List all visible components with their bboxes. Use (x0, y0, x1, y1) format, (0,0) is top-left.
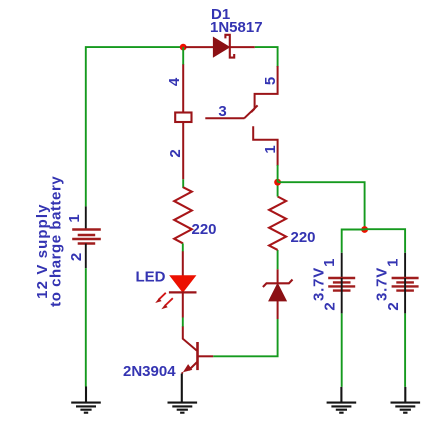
zener cathode pin (277, 269, 279, 283)
transistor Q1 2N3904 collector lead (183, 327, 197, 351)
resistor R2 220 (269, 197, 286, 250)
zener cathode bar (263, 280, 293, 288)
svg-text:1: 1 (384, 259, 401, 267)
relay contact tick (251, 109, 254, 112)
wire Q1 base to zener anode (213, 319, 277, 356)
wire relay pin 1 to node B (277, 165, 279, 182)
battery V1 plates (72, 230, 101, 244)
wire node A to relay coil pin 4 (182, 47, 184, 65)
wire coil pin 2 to resistor R1 (182, 179, 184, 188)
wire node B to node C (278, 182, 365, 229)
node C (battery bank junction) (361, 226, 368, 233)
svg-text:LED: LED (136, 269, 166, 286)
LED cathode pin (182, 292, 184, 317)
zener diode body (269, 284, 286, 301)
wire LED cathode to Q1 collector (182, 318, 184, 328)
svg-text:2: 2 (167, 149, 184, 157)
diode D1 body (schottky) (213, 37, 229, 56)
ground (battery V2) (327, 387, 357, 413)
battery V1 pin 1 lead (85, 206, 87, 229)
LED body (170, 276, 195, 292)
relay contact pin 1 lead (253, 126, 277, 166)
svg-text:to charge battery: to charge battery (48, 176, 65, 307)
svg-text:1: 1 (321, 259, 338, 267)
svg-text:2N3904: 2N3904 (123, 363, 176, 380)
wire battery V3 to ground (404, 313, 406, 387)
svg-text:3.7V: 3.7V (374, 267, 391, 301)
svg-text:1: 1 (66, 214, 83, 222)
relay coil K1 (175, 113, 191, 123)
wire battery V1 to ground (85, 268, 87, 386)
battery V3 pin 1 lead (404, 253, 406, 278)
LED emission arrow 1 (155, 293, 166, 303)
LED anode pin (182, 251, 184, 276)
transistor Q1 emitter with arrow (182, 362, 198, 374)
relay coil pin 2 lead (182, 122, 184, 179)
relay contact pin 5 lead (255, 66, 278, 109)
wire R1 to LED anode (182, 243, 184, 251)
svg-text:2: 2 (385, 302, 402, 310)
battery V2 pin 1 lead (341, 253, 343, 278)
zener diode anode pin (277, 301, 279, 319)
svg-text:3: 3 (218, 103, 226, 120)
wire R2 top to node B (277, 182, 279, 196)
wire node C to battery V2 (342, 230, 365, 253)
svg-text:4: 4 (166, 77, 183, 86)
LED cathode bar (169, 291, 197, 293)
node A (D1 anode junction) (180, 44, 187, 51)
transistor Q1 base bar (196, 342, 199, 370)
svg-text:220: 220 (291, 229, 316, 246)
relay coil pin 4 lead (182, 64, 184, 112)
diode D1 cathode pin (230, 46, 255, 48)
battery V3 plates (392, 278, 419, 291)
svg-text:220: 220 (192, 221, 217, 238)
LED emission arrow 2 (161, 298, 173, 309)
wire battery V2 to ground (341, 313, 343, 387)
relay switch arm (244, 105, 257, 118)
node B (relay contact / battery feed junction) (274, 179, 281, 186)
svg-text:1: 1 (262, 145, 279, 153)
wire D1 cathode to relay contact pin 5 (255, 47, 278, 67)
wire 12V supply rail (battery V1 top to node A) (86, 47, 180, 206)
relay contact pin 3 lead (205, 117, 244, 119)
wire node C to battery V3 (365, 229, 406, 253)
svg-text:2: 2 (68, 253, 85, 261)
ground (battery V1) (71, 387, 101, 413)
svg-text:2: 2 (322, 302, 339, 310)
diode D1 anode pin (185, 46, 213, 48)
svg-text:5: 5 (262, 77, 279, 85)
transistor Q1 base lead (198, 355, 214, 357)
battery V2 pin 2 lead (341, 278, 343, 313)
svg-text:3.7V: 3.7V (310, 267, 327, 301)
battery V2 plates (328, 278, 355, 291)
diode D1 schottky cathode bar (225, 35, 234, 58)
ground (Q1 emitter) (168, 374, 198, 413)
ground (battery V3) (391, 387, 421, 413)
resistor R1 220 (174, 187, 192, 243)
battery V3 pin 2 lead (404, 278, 406, 313)
battery V1 pin 2 lead (85, 244, 87, 269)
wire zener to resistor R2 (277, 250, 279, 269)
svg-text:1N5817: 1N5817 (210, 19, 263, 36)
